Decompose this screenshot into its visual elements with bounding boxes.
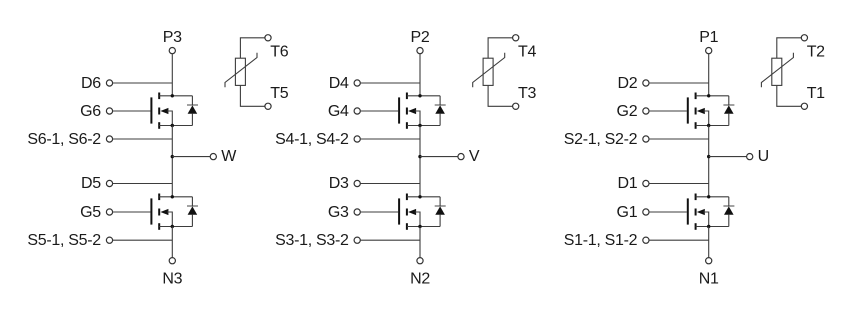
terminal G2: [643, 108, 649, 114]
terminal P3: [169, 48, 175, 54]
terminal T5: [265, 103, 271, 109]
diode D4d cathode bar: [435, 104, 446, 106]
wire thermistor top to terminal T2: [777, 38, 802, 58]
svg-text:N2: N2: [410, 270, 430, 287]
terminal V: [458, 154, 464, 160]
wire D5 lead: [113, 183, 173, 185]
wire Q6 drain line: [159, 95, 192, 97]
wire U lead: [709, 156, 747, 158]
wire G4 lead: [360, 110, 398, 112]
node Q1 drain junction: [707, 195, 710, 198]
node Q5 drain junction: [171, 195, 174, 198]
terminal S3-1, S3-2: [354, 237, 360, 243]
diode D5d cathode bar: [187, 205, 198, 207]
wire Q3 body to source: [415, 212, 420, 227]
wire Q4 source to Q3 drain rail: [419, 126, 421, 197]
node Q6 drain junction: [171, 94, 174, 97]
wire Q3 source to N2: [419, 227, 421, 258]
wire Q5 drain line: [159, 196, 192, 198]
wire S3-1, S3-2 lead: [360, 239, 420, 241]
wire Q1 source to N1: [708, 227, 710, 258]
wire Q3 source line: [407, 226, 440, 228]
wire G2 lead: [649, 110, 687, 112]
node Q2 source junction: [707, 124, 710, 127]
svg-text:P1: P1: [699, 29, 718, 46]
svg-text:T1: T1: [807, 85, 825, 102]
diode D2d triangle: [724, 105, 734, 113]
node Q2 drain junction: [707, 94, 710, 97]
svg-text:N1: N1: [699, 270, 719, 287]
terminal N1: [706, 258, 712, 264]
wire thermistor top to terminal T6: [240, 38, 265, 58]
diode D4d triangle: [435, 105, 445, 113]
diode D3d triangle: [435, 206, 445, 214]
terminal G4: [354, 108, 360, 114]
transistor Q3 body arrow: [408, 209, 416, 215]
wire P1 to Q2 drain: [708, 54, 710, 96]
terminal T2: [801, 35, 807, 41]
wire thermistor bottom to terminal T1: [777, 85, 802, 106]
svg-text:S3-1, S3-2: S3-1, S3-2: [275, 232, 349, 249]
terminal P2: [417, 48, 423, 54]
svg-text:T2: T2: [807, 43, 825, 60]
svg-text:D5: D5: [81, 175, 101, 192]
svg-text:P2: P2: [411, 29, 430, 46]
wire Q6 source line: [159, 125, 192, 127]
terminal T1: [801, 103, 807, 109]
terminal D3: [354, 180, 360, 186]
wire P3 to Q6 drain: [171, 54, 173, 96]
diode D2d leads: [728, 96, 730, 105]
thermistor T4/T3 diagonal: [473, 53, 505, 87]
transistor Q3 channel dashes: [406, 194, 408, 230]
thermistor T4/T3 body: [483, 58, 493, 85]
wire W lead: [172, 156, 210, 158]
svg-text:D3: D3: [329, 175, 349, 192]
wire D1 lead: [649, 183, 709, 185]
thermistor T6/T5 diagonal: [225, 53, 257, 87]
terminal S5-1, S5-2: [106, 237, 112, 243]
transistor Q2 channel dashes: [695, 93, 697, 129]
svg-text:D6: D6: [81, 75, 101, 92]
diode D3d cathode bar: [435, 205, 446, 207]
wire Q1 body to source: [703, 212, 708, 227]
wire D3 lead: [360, 183, 420, 185]
wire G1 lead: [649, 211, 687, 213]
svg-text:S5-1, S5-2: S5-1, S5-2: [27, 232, 101, 249]
wire thermistor top to terminal T4: [488, 38, 512, 58]
wire Q2 source line: [696, 125, 729, 127]
wire S6-1, S6-2 lead: [113, 138, 173, 140]
wire D4 lead: [360, 82, 420, 84]
terminal S4-1, S4-2: [354, 136, 360, 142]
terminal T3: [513, 103, 519, 109]
diode D1d triangle: [724, 206, 734, 214]
svg-text:U: U: [758, 148, 769, 165]
terminal N3: [169, 258, 175, 264]
transistor Q2 body arrow: [697, 108, 705, 114]
svg-text:G6: G6: [80, 103, 101, 120]
node V junction: [418, 155, 421, 158]
terminal G6: [106, 108, 112, 114]
node Q1 source junction: [707, 225, 710, 228]
terminal G3: [354, 209, 360, 215]
node Q5 source junction: [171, 225, 174, 228]
terminal D5: [106, 180, 112, 186]
terminal S6-1, S6-2: [106, 136, 112, 142]
terminal G5: [106, 209, 112, 215]
wire Q6 body to source: [167, 111, 172, 126]
diode D6d triangle: [188, 105, 198, 113]
transistor Q5 gate bar: [150, 198, 152, 224]
transistor Q4 channel dashes: [406, 93, 408, 129]
transistor Q2 gate bar: [687, 97, 689, 123]
wire S1-1, S1-2 lead: [649, 239, 709, 241]
svg-text:P3: P3: [163, 29, 182, 46]
wire Q3 drain line: [407, 196, 440, 198]
transistor Q6 channel dashes: [158, 93, 160, 129]
thermistor T6/T5 body: [235, 58, 245, 85]
terminal S2-1, S2-2: [643, 136, 649, 142]
wire Q4 source line: [407, 125, 440, 127]
node Q3 drain junction: [418, 195, 421, 198]
svg-text:N3: N3: [162, 270, 182, 287]
terminal P1: [706, 48, 712, 54]
terminal T6: [265, 35, 271, 41]
wire D2 lead: [649, 82, 709, 84]
node Q4 source junction: [418, 124, 421, 127]
transistor Q4 gate bar: [398, 97, 400, 123]
wire thermistor bottom to terminal T5: [240, 85, 265, 106]
diode D2d cathode bar: [723, 104, 734, 106]
svg-text:G2: G2: [617, 103, 638, 120]
wire D6 lead: [113, 82, 173, 84]
wire Q6 source to Q5 drain rail: [171, 126, 173, 197]
diode D1d cathode bar: [723, 205, 734, 207]
svg-text:G1: G1: [617, 204, 638, 221]
wire Q4 drain line: [407, 95, 440, 97]
terminal D1: [643, 180, 649, 186]
diode D5d leads: [191, 197, 193, 206]
transistor Q1 body arrow: [697, 209, 705, 215]
diode D4d leads: [439, 96, 441, 105]
terminal D6: [106, 80, 112, 86]
wire G3 lead: [360, 211, 398, 213]
wire S2-1, S2-2 lead: [649, 138, 709, 140]
svg-text:G4: G4: [328, 103, 349, 120]
diode D1d leads: [728, 197, 730, 206]
thermistor T2/T1 body: [772, 58, 782, 85]
wire Q1 source line: [696, 226, 729, 228]
transistor Q6 gate bar: [150, 97, 152, 123]
transistor Q1 channel dashes: [695, 194, 697, 230]
node Q3 source junction: [418, 225, 421, 228]
wire V lead: [420, 156, 458, 158]
wire Q5 body to source: [167, 212, 172, 227]
terminal D4: [354, 80, 360, 86]
svg-text:S2-1, S2-2: S2-1, S2-2: [564, 131, 638, 148]
diode D6d cathode bar: [187, 104, 198, 106]
wire thermistor bottom to terminal T3: [488, 85, 512, 106]
svg-text:S6-1, S6-2: S6-1, S6-2: [27, 131, 101, 148]
transistor Q4 body arrow: [408, 108, 416, 114]
wire Q4 body to source: [415, 111, 420, 126]
svg-text:G5: G5: [80, 204, 101, 221]
diode D3d leads: [439, 197, 441, 206]
svg-text:T3: T3: [518, 85, 536, 102]
diode D5d triangle: [188, 206, 198, 214]
terminal N2: [417, 258, 423, 264]
svg-text:S1-1, S1-2: S1-1, S1-2: [564, 232, 638, 249]
transistor Q3 gate bar: [398, 198, 400, 224]
node Q4 drain junction: [418, 94, 421, 97]
node Q6 source junction: [171, 124, 174, 127]
svg-text:T5: T5: [270, 85, 288, 102]
svg-text:D1: D1: [617, 175, 637, 192]
svg-text:T6: T6: [270, 43, 288, 60]
transistor Q6 body arrow: [160, 108, 168, 114]
svg-text:S4-1, S4-2: S4-1, S4-2: [275, 131, 349, 148]
svg-text:D2: D2: [617, 75, 637, 92]
terminal S1-1, S1-2: [643, 237, 649, 243]
transistor Q5 channel dashes: [158, 194, 160, 230]
transistor Q1 gate bar: [687, 198, 689, 224]
terminal W: [210, 154, 216, 160]
svg-text:T4: T4: [518, 43, 536, 60]
terminal U: [747, 154, 753, 160]
terminal D2: [643, 80, 649, 86]
svg-text:G3: G3: [328, 204, 349, 221]
wire P2 to Q4 drain: [419, 54, 421, 96]
node U junction: [707, 155, 710, 158]
wire S4-1, S4-2 lead: [360, 138, 420, 140]
wire Q2 drain line: [696, 95, 729, 97]
thermistor T2/T1 diagonal: [761, 53, 793, 87]
transistor Q5 body arrow: [160, 209, 168, 215]
wire Q1 drain line: [696, 196, 729, 198]
wire Q2 source to Q1 drain rail: [708, 126, 710, 197]
terminal G1: [643, 209, 649, 215]
wire G5 lead: [113, 211, 151, 213]
node W junction: [171, 155, 174, 158]
diode D6d leads: [191, 96, 193, 105]
svg-text:D4: D4: [329, 75, 349, 92]
svg-text:W: W: [221, 148, 237, 165]
wire Q2 body to source: [703, 111, 708, 126]
terminal T4: [513, 35, 519, 41]
wire Q5 source line: [159, 226, 192, 228]
svg-text:V: V: [469, 148, 480, 165]
wire Q5 source to N3: [171, 227, 173, 258]
wire S5-1, S5-2 lead: [113, 239, 173, 241]
wire G6 lead: [113, 110, 151, 112]
